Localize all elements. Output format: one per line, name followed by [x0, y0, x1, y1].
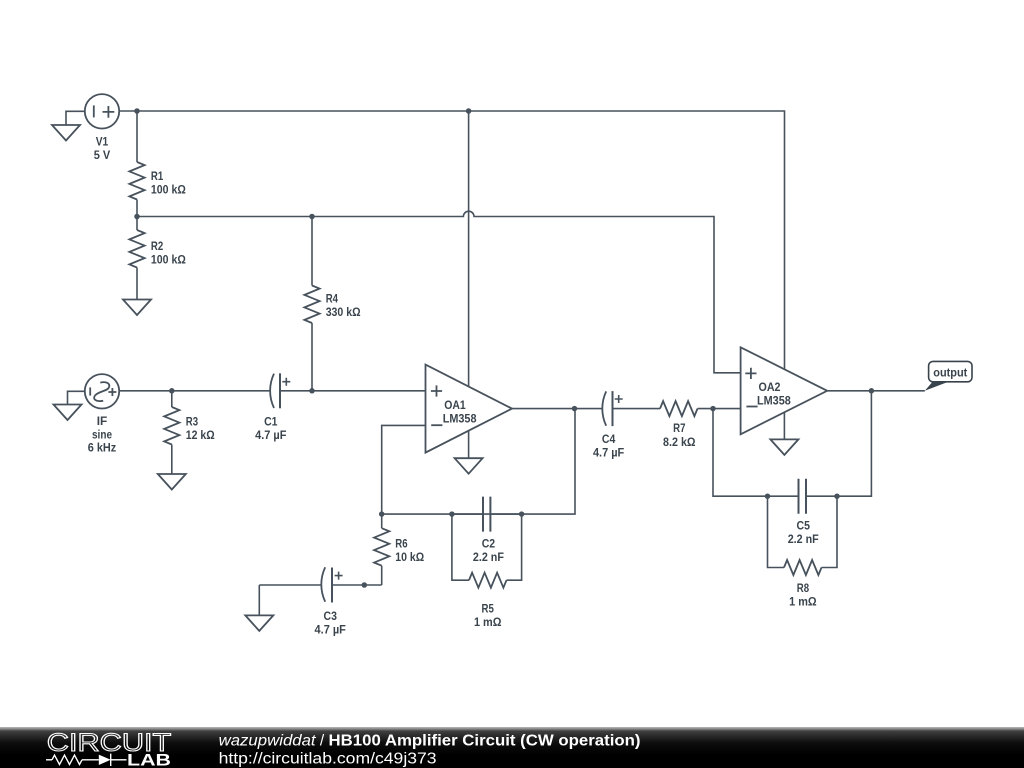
svg-text:R7: R7 — [673, 421, 686, 435]
svg-text:IF: IF — [97, 414, 108, 428]
svg-text:C2: C2 — [482, 536, 496, 550]
svg-text:330 kΩ: 330 kΩ — [326, 305, 361, 319]
svg-text:4.7 µF: 4.7 µF — [255, 428, 286, 442]
svg-text:LM358: LM358 — [443, 411, 477, 425]
svg-text:4.7 µF: 4.7 µF — [315, 622, 346, 636]
svg-text:4.7 µF: 4.7 µF — [593, 445, 624, 459]
svg-text:wazupwiddat / HB100 Amplifier: wazupwiddat / HB100 Amplifier Circuit (C… — [219, 732, 641, 749]
svg-text:5 V: 5 V — [94, 148, 111, 162]
svg-text:1 mΩ: 1 mΩ — [789, 594, 817, 608]
svg-text:C1: C1 — [264, 415, 278, 429]
svg-text:output: output — [933, 365, 967, 379]
svg-text:sine: sine — [92, 427, 112, 441]
svg-text:100 kΩ: 100 kΩ — [151, 253, 186, 267]
svg-text:R1: R1 — [151, 169, 164, 183]
svg-text:OA2: OA2 — [759, 380, 781, 394]
svg-text:10 kΩ: 10 kΩ — [395, 550, 424, 564]
svg-text:C5: C5 — [797, 519, 811, 533]
svg-text:1 mΩ: 1 mΩ — [474, 615, 502, 629]
svg-text:LAB: LAB — [127, 751, 171, 768]
svg-text:R3: R3 — [186, 415, 199, 429]
svg-text:8.2 kΩ: 8.2 kΩ — [663, 435, 696, 449]
svg-text:C3: C3 — [324, 609, 338, 623]
svg-text:R8: R8 — [797, 581, 810, 595]
svg-text:OA1: OA1 — [444, 398, 466, 412]
svg-text:http://circuitlab.com/c49j373: http://circuitlab.com/c49j373 — [219, 750, 437, 767]
svg-text:C4: C4 — [602, 432, 616, 446]
svg-text:12 kΩ: 12 kΩ — [186, 428, 215, 442]
svg-text:2.2 nF: 2.2 nF — [473, 550, 504, 564]
svg-text:R4: R4 — [326, 291, 339, 305]
svg-text:R2: R2 — [151, 239, 164, 253]
svg-text:R5: R5 — [482, 601, 495, 615]
svg-text:V1: V1 — [96, 135, 109, 149]
svg-text:2.2 nF: 2.2 nF — [788, 532, 819, 546]
svg-text:100 kΩ: 100 kΩ — [151, 183, 186, 197]
svg-text:LM358: LM358 — [757, 394, 791, 408]
svg-text:6 kHz: 6 kHz — [88, 441, 117, 455]
svg-text:R6: R6 — [395, 537, 408, 551]
